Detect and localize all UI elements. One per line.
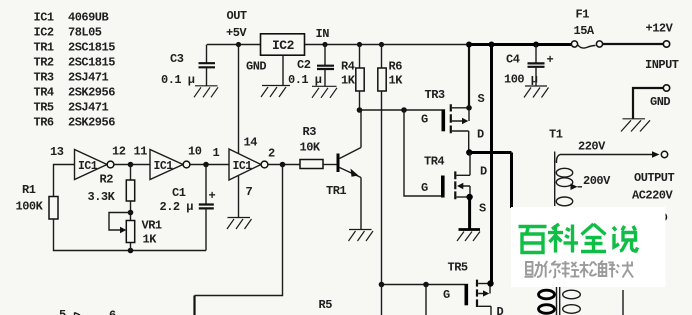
label TR3 xyxy=(425,88,445,102)
svg-text:VR1: VR1 xyxy=(142,219,162,233)
node TR5 source dot xyxy=(487,280,493,286)
watermark gray char jie xyxy=(599,261,616,278)
svg-text:2.2 μ: 2.2 μ xyxy=(160,200,194,214)
op-amp U1 inverter IC1c xyxy=(229,149,268,180)
wire VR1 wiper loop xyxy=(109,213,131,234)
resistor R1 xyxy=(16,183,59,219)
svg-text:TR3: TR3 xyxy=(34,71,54,85)
svg-text:IC1: IC1 xyxy=(34,11,54,25)
node pin 2 output junction xyxy=(268,162,300,168)
svg-text:200V: 200V xyxy=(583,174,611,188)
transformer T1 secondary core line xyxy=(554,152,556,207)
transistor Q1 TR1 xyxy=(326,148,361,199)
svg-text:T1: T1 xyxy=(549,128,563,142)
wire TR5 gate line xyxy=(382,284,465,286)
transformer T1 label xyxy=(549,128,563,142)
op-amp U1 inverter IC1a xyxy=(75,150,114,180)
svg-text:TR6: TR6 xyxy=(34,116,54,130)
label D of TR4 xyxy=(480,165,487,179)
svg-text:220V: 220V xyxy=(578,140,606,154)
svg-text:1: 1 xyxy=(213,146,220,160)
watermark gray char jue xyxy=(616,262,633,278)
svg-text:TR1: TR1 xyxy=(34,41,54,55)
svg-text:GND: GND xyxy=(246,60,266,74)
node +5V junction xyxy=(236,42,241,47)
wire R1 bottom to feedback rail xyxy=(54,219,207,251)
wire TR1 collector up to R4 junction xyxy=(360,110,362,148)
op-amp U1 regulator IC2 box xyxy=(261,34,305,55)
svg-text:6: 6 xyxy=(109,309,116,315)
ground input GND xyxy=(621,119,650,132)
wire TR4 gate feed xyxy=(404,110,441,196)
watermark gray char song xyxy=(580,262,597,278)
parts list TR1 xyxy=(34,41,116,55)
parts list TR4 xyxy=(34,86,116,100)
label OUT xyxy=(227,9,247,23)
wire +5V rail from C3 corner to IC2 OUT pin xyxy=(207,44,261,46)
label +5V xyxy=(226,26,247,40)
capacitor C3 xyxy=(161,45,215,88)
svg-text:13: 13 xyxy=(50,145,64,159)
label TR5 xyxy=(448,261,468,275)
svg-text:2SJ471: 2SJ471 xyxy=(68,71,109,85)
parts list IC2 xyxy=(34,26,102,40)
transistor Q3 TR3 gate bar xyxy=(421,109,445,131)
wire TR3 gate line xyxy=(360,109,442,111)
transistor Q3 TR3 channel and leads xyxy=(451,104,469,152)
svg-text:C2: C2 xyxy=(297,58,311,72)
svg-text:+: + xyxy=(547,53,554,67)
node +12V input terminal xyxy=(646,22,674,48)
label pin 10 xyxy=(188,145,202,159)
label pin 1 xyxy=(213,146,220,160)
node output terminal 220V xyxy=(661,151,667,157)
wire pin 7 to ground xyxy=(238,176,240,218)
wire R1 top to inverter A input xyxy=(54,165,75,197)
svg-text:R5: R5 xyxy=(319,298,333,312)
svg-text:G: G xyxy=(421,181,428,195)
svg-text:R1: R1 xyxy=(22,183,36,197)
svg-text:12: 12 xyxy=(112,145,126,159)
svg-text:TR4: TR4 xyxy=(424,155,444,169)
wire +12V down rail to TR5 (thick) xyxy=(490,45,493,284)
wire pin 14 from +5V node down to inverter C xyxy=(238,45,240,154)
ground TR4 thick xyxy=(457,230,480,242)
svg-text:4069UB: 4069UB xyxy=(68,11,109,25)
svg-text:2SK2956: 2SK2956 xyxy=(68,86,115,100)
svg-text:D: D xyxy=(480,165,487,179)
svg-text:TR2: TR2 xyxy=(34,56,54,70)
ground IC2 xyxy=(261,86,290,98)
svg-text:IC1: IC1 xyxy=(154,160,174,173)
label TR4 xyxy=(424,155,444,169)
svg-text:2SC1815: 2SC1815 xyxy=(68,56,115,70)
ground C2 xyxy=(312,86,337,98)
svg-text:IC1: IC1 xyxy=(233,160,253,173)
node TR4 gate branch junction xyxy=(401,107,407,113)
fuse F1 xyxy=(571,8,602,49)
wire pin2 output down and to bottom inverter xyxy=(195,165,283,315)
svg-text:GND: GND xyxy=(650,95,670,109)
wire TR1 emitter to ground xyxy=(360,178,362,230)
wire GND terminal to ground xyxy=(633,88,663,119)
wire R6 column continues to bottom edge xyxy=(381,285,383,315)
label pin 14 xyxy=(244,136,258,150)
parts list TR3 xyxy=(34,71,109,85)
label IN xyxy=(316,27,330,41)
transformer T1 primary core double line bottom xyxy=(557,287,560,315)
capacitor C4 xyxy=(504,42,554,87)
label D of TR3 xyxy=(477,128,484,142)
label pin 5 partial bottom xyxy=(59,308,66,315)
wire output line 2 down right of transformer xyxy=(622,290,624,315)
wire TR6 gate feed down xyxy=(425,285,427,315)
node TR3 source dot xyxy=(466,105,472,111)
svg-text:IN: IN xyxy=(316,27,330,41)
node output terminal 2 behind watermark xyxy=(659,213,667,221)
svg-text:TR1: TR1 xyxy=(326,184,346,198)
svg-text:R4: R4 xyxy=(341,60,355,74)
svg-text:TR4: TR4 xyxy=(34,86,54,100)
svg-text:14: 14 xyxy=(244,136,258,150)
transistor Q5 TR5 gate bar xyxy=(443,284,468,306)
wire thick +12V rail xyxy=(469,43,571,46)
svg-text:AC220V: AC220V xyxy=(632,189,674,203)
node TR4 source dot xyxy=(466,194,472,200)
wire IC2 GND pin xyxy=(282,55,284,85)
wire R6 column down to TR5 gate line xyxy=(381,91,383,285)
node R6 TR5 gate junction xyxy=(379,282,385,288)
transistor Q5 TR5 channel and leads xyxy=(477,280,491,315)
svg-text:OUTPUT: OUTPUT xyxy=(634,171,675,185)
op-amp U1 inverter IC1b xyxy=(150,150,190,180)
svg-text:10: 10 xyxy=(188,145,202,159)
wire fuse to +12V terminal xyxy=(603,43,663,45)
label AC220V xyxy=(632,189,674,203)
svg-text:C1: C1 xyxy=(172,186,186,200)
transformer T1 right winding thin loops xyxy=(563,290,581,313)
node TR3 TR4 midpoint junction xyxy=(466,149,472,155)
label GND of IC2 xyxy=(246,60,266,74)
label 200V xyxy=(583,174,611,188)
parts list TR6 xyxy=(34,116,116,130)
svg-text:0.1 μ: 0.1 μ xyxy=(161,73,195,87)
resistor R2 xyxy=(88,165,135,221)
label S of TR3 xyxy=(478,92,485,106)
label pin 7 xyxy=(246,185,253,199)
capacitor C2 xyxy=(288,42,334,87)
label 220V xyxy=(578,140,606,154)
wire inverter A out to inverter B in xyxy=(114,164,150,166)
svg-text:1K: 1K xyxy=(341,74,356,88)
watermark gray char qing xyxy=(561,261,579,278)
capacitor C1 xyxy=(160,165,216,251)
wire IC2 IN pin to thick +12V rail xyxy=(305,44,471,46)
node R2 VR1 wiper junction xyxy=(128,210,134,216)
resistor R6 xyxy=(378,42,403,91)
svg-text:R2: R2 xyxy=(100,173,114,187)
svg-text:7: 7 xyxy=(246,185,253,199)
svg-text:3.3K: 3.3K xyxy=(88,190,116,204)
resistor R4 xyxy=(341,42,364,110)
svg-text:2SC1815: 2SC1815 xyxy=(68,41,115,55)
label OUTPUT xyxy=(634,171,675,185)
node C1 top junction xyxy=(203,162,209,168)
node R2 top junction xyxy=(128,162,134,168)
label pin 12 xyxy=(112,145,126,159)
node +12V rail branch dot xyxy=(489,42,495,48)
svg-text:15A: 15A xyxy=(574,24,595,38)
svg-text:100K: 100K xyxy=(16,200,44,214)
svg-text:S: S xyxy=(478,92,485,106)
ground IC1 pin7 xyxy=(227,218,252,230)
label pin 13 xyxy=(50,145,64,159)
svg-text:+: + xyxy=(209,189,216,203)
svg-text:INPUT: INPUT xyxy=(645,58,679,72)
svg-text:IC2: IC2 xyxy=(272,38,295,53)
svg-text:IC1: IC1 xyxy=(78,160,98,173)
node VR1 bottom junction xyxy=(128,248,134,254)
svg-text:2: 2 xyxy=(268,147,275,161)
svg-text:5: 5 xyxy=(59,308,66,315)
svg-text:1K: 1K xyxy=(143,233,158,247)
label pin 2 xyxy=(268,147,275,161)
svg-text:2SK2956: 2SK2956 xyxy=(68,116,115,130)
potentiometer VR1 xyxy=(126,219,162,251)
parts list TR5 xyxy=(34,101,109,115)
node GND input terminal xyxy=(650,85,670,109)
label 200V tap arrow xyxy=(571,184,583,191)
ground C3 xyxy=(194,86,218,98)
parts list IC1 xyxy=(34,11,109,25)
label R5 xyxy=(319,298,333,312)
label INPUT xyxy=(645,58,679,72)
svg-text:C4: C4 xyxy=(506,53,520,67)
svg-text:TR5: TR5 xyxy=(34,101,54,115)
wire midpoint to transformer primary (thick) xyxy=(469,153,511,209)
svg-text:100 μ: 100 μ xyxy=(504,73,538,87)
svg-text:D: D xyxy=(477,128,484,142)
watermark green char quan xyxy=(581,224,606,252)
node R4 TR1 gate-line junction xyxy=(357,107,363,113)
resistor R3 xyxy=(300,125,337,169)
watermark green char ke xyxy=(548,224,578,253)
ground C4 xyxy=(524,86,549,98)
transformer T1 secondary winding loops xyxy=(556,155,572,206)
svg-text:R6: R6 xyxy=(389,60,403,74)
svg-text:R3: R3 xyxy=(303,125,317,139)
svg-text:11: 11 xyxy=(134,145,148,159)
svg-text:0.1 μ: 0.1 μ xyxy=(288,73,322,87)
wire TR3 source to +12V rail xyxy=(466,42,472,108)
label S of TR4 xyxy=(479,202,486,216)
wire TR4 source to ground (thick) xyxy=(468,197,471,229)
svg-text:2SJ471: 2SJ471 xyxy=(68,101,109,115)
ground TR1 xyxy=(349,230,374,242)
wire 220V output tap with arrow xyxy=(560,151,660,157)
svg-text:G: G xyxy=(443,288,450,302)
svg-text:1K: 1K xyxy=(389,74,404,88)
svg-text:78L05: 78L05 xyxy=(68,26,102,40)
transformer T1 primary winding bold loops xyxy=(539,290,555,313)
svg-text:S: S xyxy=(479,202,486,216)
svg-text:TR3: TR3 xyxy=(425,88,445,102)
svg-text:10K: 10K xyxy=(300,141,321,155)
svg-text:D: D xyxy=(497,305,504,315)
svg-text:C3: C3 xyxy=(170,52,184,66)
wire inverter B out to inverter C in xyxy=(190,164,229,166)
svg-text:TR5: TR5 xyxy=(448,261,468,275)
label D of TR5 xyxy=(497,305,504,315)
svg-text:IC2: IC2 xyxy=(34,26,54,40)
svg-text:F1: F1 xyxy=(576,8,590,22)
label pin 6 partial bottom xyxy=(109,309,116,315)
watermark green char shuo xyxy=(613,226,638,251)
node TR6 gate branch junction xyxy=(423,282,429,288)
svg-text:G: G xyxy=(421,113,428,127)
op-amp U1 inverter IC1d partial bottom xyxy=(75,313,81,315)
label pin 11 xyxy=(134,145,148,159)
transistor Q4 TR4 channel and leads xyxy=(455,153,470,200)
svg-text:+5V: +5V xyxy=(226,26,247,40)
watermark gray char zhu xyxy=(525,262,543,278)
watermark gray char ni xyxy=(544,261,561,278)
watermark white box xyxy=(511,207,666,287)
parts list TR2 xyxy=(34,56,116,70)
svg-text:+12V: +12V xyxy=(646,22,674,36)
svg-text:OUT: OUT xyxy=(227,9,247,23)
transistor Q4 TR4 gate bar xyxy=(421,176,445,198)
watermark green char bai xyxy=(519,227,547,253)
